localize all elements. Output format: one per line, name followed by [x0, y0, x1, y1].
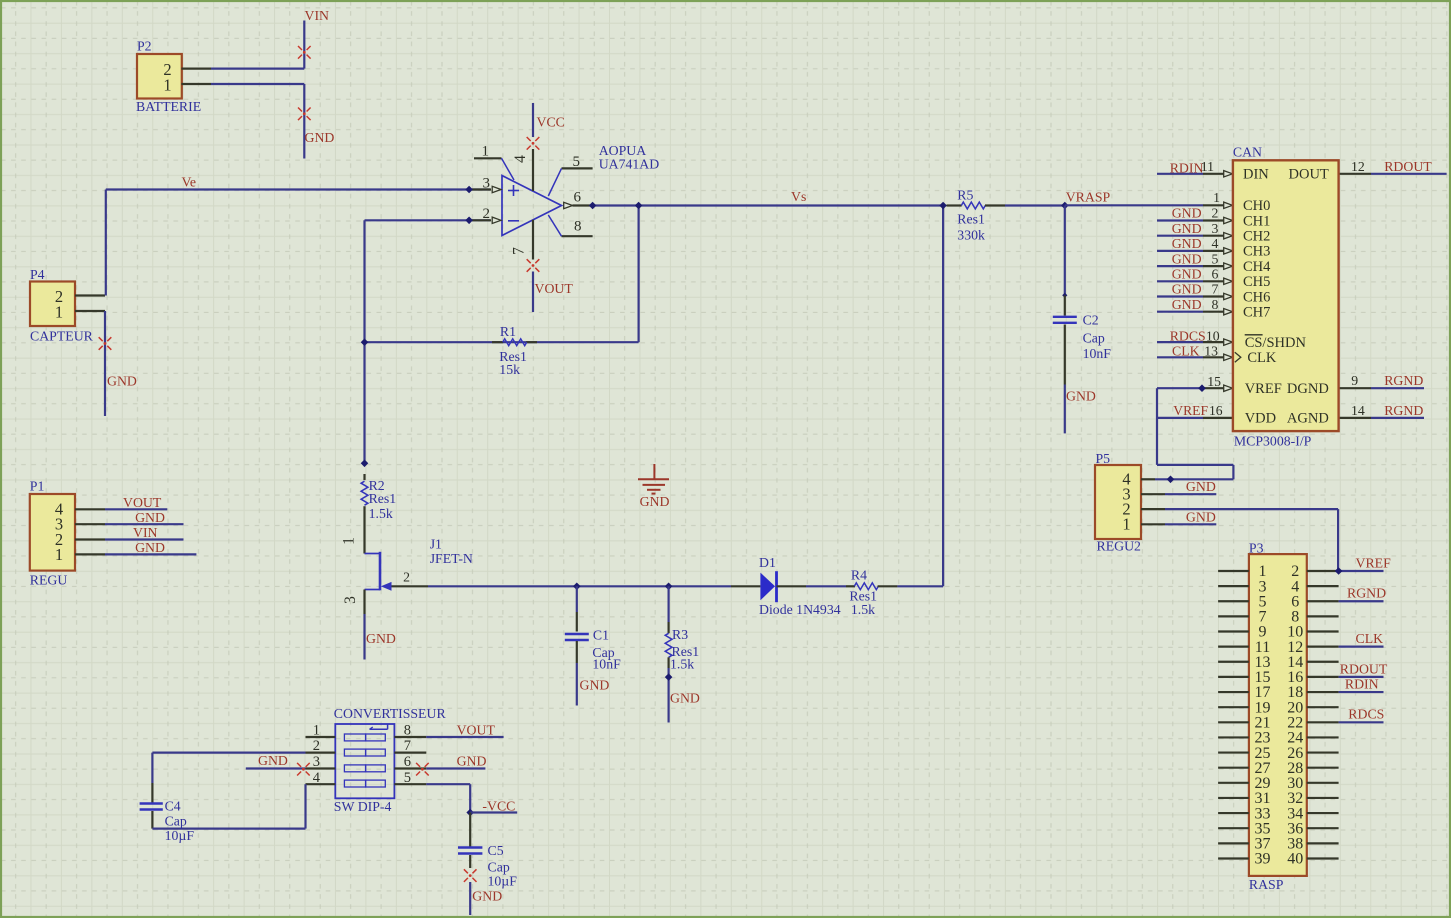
svg-text:REGU: REGU [30, 573, 68, 588]
svg-text:Res1: Res1 [369, 491, 397, 506]
svg-text:Cap: Cap [165, 814, 187, 829]
svg-text:RDIN: RDIN [1170, 160, 1204, 175]
svg-text:39: 39 [1255, 851, 1271, 868]
svg-text:UA741AD: UA741AD [599, 156, 660, 171]
svg-text:JFET-N: JFET-N [430, 551, 473, 566]
svg-text:CH2: CH2 [1243, 229, 1270, 245]
svg-text:VIN: VIN [133, 525, 158, 540]
svg-text:DOUT: DOUT [1289, 167, 1329, 183]
svg-text:Diode 1N4934: Diode 1N4934 [759, 602, 841, 617]
svg-text:1: 1 [55, 545, 63, 564]
svg-text:13: 13 [1204, 344, 1218, 359]
svg-text:CH0: CH0 [1243, 198, 1270, 214]
svg-text:1.5k: 1.5k [851, 602, 875, 617]
svg-text:GND: GND [1186, 510, 1216, 525]
svg-text:3: 3 [483, 175, 491, 191]
svg-text:1: 1 [1213, 190, 1220, 205]
svg-text:40: 40 [1287, 851, 1303, 868]
svg-text:RGND: RGND [1384, 403, 1423, 418]
svg-text:2: 2 [483, 206, 491, 222]
svg-text:P4: P4 [30, 267, 45, 282]
svg-text:BATTERIE: BATTERIE [136, 99, 201, 114]
svg-text:CLK: CLK [1356, 631, 1384, 646]
svg-text:3: 3 [1211, 221, 1218, 236]
svg-text:7: 7 [511, 247, 528, 255]
svg-text:VOUT: VOUT [123, 495, 162, 510]
svg-text:P1: P1 [30, 479, 45, 494]
svg-text:16: 16 [1209, 403, 1223, 418]
svg-text:J1: J1 [430, 537, 442, 552]
svg-text:P2: P2 [137, 39, 152, 54]
svg-text:DGND: DGND [1287, 381, 1329, 397]
svg-text:1.5k: 1.5k [670, 657, 694, 672]
svg-text:C2: C2 [1083, 313, 1099, 328]
svg-text:RGND: RGND [1384, 373, 1423, 388]
svg-text:CAN: CAN [1233, 145, 1262, 160]
svg-text:GND: GND [1066, 389, 1096, 404]
svg-text:6: 6 [1211, 267, 1218, 282]
svg-text:-VCC: -VCC [482, 798, 515, 813]
svg-text:9: 9 [1351, 373, 1358, 388]
svg-text:REGU2: REGU2 [1097, 539, 1142, 554]
svg-text:RASP: RASP [1249, 877, 1284, 892]
svg-text:4: 4 [1211, 236, 1218, 251]
svg-text:GND: GND [135, 510, 165, 525]
svg-text:1: 1 [482, 144, 490, 160]
svg-text:VREF: VREF [1356, 555, 1392, 570]
svg-text:GND: GND [457, 754, 487, 769]
svg-text:R1: R1 [500, 324, 516, 339]
svg-text:VOUT: VOUT [457, 723, 496, 738]
svg-text:RDOUT: RDOUT [1384, 159, 1432, 174]
svg-text:Vs: Vs [791, 189, 806, 204]
svg-text:GND: GND [107, 374, 137, 389]
svg-text:8: 8 [574, 219, 582, 235]
svg-text:CH5: CH5 [1243, 274, 1270, 290]
svg-text:1: 1 [55, 302, 63, 321]
svg-text:RGND: RGND [1347, 586, 1386, 601]
svg-text:Cap: Cap [1083, 331, 1105, 346]
svg-text:CH1: CH1 [1243, 213, 1270, 229]
svg-text:CONVERTISSEUR: CONVERTISSEUR [334, 706, 447, 721]
svg-text:CLK: CLK [1247, 350, 1277, 366]
svg-text:GND: GND [305, 130, 335, 145]
svg-text:GND: GND [1172, 221, 1202, 236]
svg-text:1: 1 [341, 537, 358, 545]
svg-text:GND: GND [670, 691, 700, 706]
svg-text:VRASP: VRASP [1066, 190, 1111, 205]
svg-text:3: 3 [342, 596, 359, 604]
svg-text:VREF: VREF [1173, 403, 1208, 418]
svg-text:GND: GND [1172, 236, 1202, 251]
svg-text:Res1: Res1 [957, 212, 985, 227]
svg-text:GND: GND [1172, 267, 1202, 282]
svg-text:CH3: CH3 [1243, 244, 1270, 260]
svg-text:GND: GND [1172, 282, 1202, 297]
svg-text:10nF: 10nF [1083, 346, 1112, 361]
svg-text:CH4: CH4 [1243, 259, 1271, 275]
svg-text:CAPTEUR: CAPTEUR [30, 329, 94, 344]
svg-text:7: 7 [1211, 282, 1218, 297]
svg-text:GND: GND [1172, 251, 1202, 266]
svg-text:14: 14 [1351, 403, 1365, 418]
svg-text:GND: GND [135, 540, 165, 555]
svg-text:R4: R4 [851, 568, 867, 583]
svg-text:15k: 15k [499, 362, 520, 377]
svg-text:R5: R5 [957, 188, 973, 203]
svg-text:10: 10 [1206, 329, 1220, 344]
svg-text:RDIN: RDIN [1345, 676, 1379, 691]
svg-text:GND: GND [1186, 479, 1216, 494]
svg-text:2: 2 [1211, 206, 1218, 221]
svg-text:RDOUT: RDOUT [1340, 661, 1388, 676]
svg-text:GND: GND [580, 678, 610, 693]
svg-text:GND: GND [366, 631, 396, 646]
svg-text:P5: P5 [1096, 451, 1111, 466]
svg-text:GND: GND [472, 889, 502, 904]
svg-text:CH7: CH7 [1243, 305, 1270, 321]
svg-text:2: 2 [403, 570, 410, 585]
svg-text:VCC: VCC [537, 115, 565, 130]
svg-text:Cap: Cap [488, 859, 510, 874]
svg-text:8: 8 [1211, 297, 1218, 312]
svg-text:MCP3008-I/P: MCP3008-I/P [1234, 434, 1312, 449]
svg-text:GND: GND [640, 494, 670, 509]
svg-text:330k: 330k [957, 228, 985, 243]
svg-text:RDCS: RDCS [1348, 707, 1384, 722]
svg-text:1.5k: 1.5k [369, 506, 393, 521]
svg-text:11: 11 [1201, 159, 1214, 174]
svg-text:D1: D1 [759, 555, 776, 570]
svg-text:DIN: DIN [1243, 167, 1269, 183]
svg-text:CS/SHDN: CS/SHDN [1245, 335, 1307, 351]
svg-text:CH6: CH6 [1243, 289, 1270, 305]
svg-text:AGND: AGND [1287, 411, 1329, 427]
svg-text:C1: C1 [593, 628, 609, 643]
svg-text:VOUT: VOUT [535, 281, 574, 296]
svg-text:10nF: 10nF [592, 657, 621, 672]
svg-text:5: 5 [573, 154, 581, 170]
svg-text:GND: GND [1172, 297, 1202, 312]
svg-text:5: 5 [1211, 251, 1218, 266]
svg-text:4: 4 [512, 155, 529, 163]
svg-text:C4: C4 [165, 798, 181, 813]
svg-text:VREF: VREF [1245, 381, 1282, 397]
svg-text:12: 12 [1351, 159, 1365, 174]
svg-text:R3: R3 [672, 627, 688, 642]
svg-text:6: 6 [574, 190, 582, 206]
svg-text:GND: GND [1172, 206, 1202, 221]
svg-text:RDCS: RDCS [1170, 329, 1206, 344]
svg-text:10µF: 10µF [165, 828, 195, 843]
svg-text:C5: C5 [488, 843, 504, 858]
svg-text:GND: GND [258, 753, 288, 768]
svg-text:15: 15 [1207, 374, 1221, 389]
svg-text:VDD: VDD [1245, 411, 1276, 427]
svg-text:VIN: VIN [305, 8, 330, 23]
svg-text:1: 1 [163, 75, 171, 94]
svg-text:1: 1 [1122, 515, 1130, 534]
svg-text:CLK: CLK [1172, 344, 1200, 359]
svg-text:SW DIP-4: SW DIP-4 [334, 799, 392, 814]
svg-text:Ve: Ve [182, 175, 197, 190]
svg-text:10µF: 10µF [488, 874, 518, 889]
